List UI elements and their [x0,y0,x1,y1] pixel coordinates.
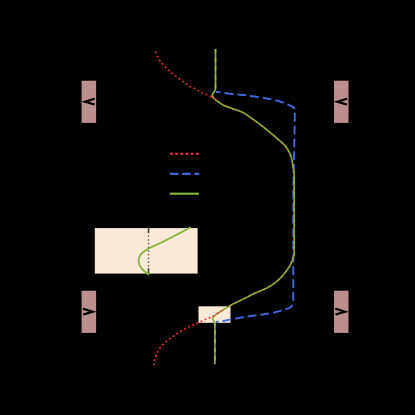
red dotted branch: lower-left tail [154,311,222,365]
inset dotted asymptote [148,228,150,274]
legend blue dashed [170,173,199,175]
zoom-region box [199,306,231,323]
button next-left [82,291,97,333]
legend green solid [170,193,199,195]
blue dashed hysteresis loop [216,92,295,322]
button prev-right [334,81,349,123]
green bright dashes overlay (top asymptote) [215,49,217,90]
legend red dotted [170,153,199,155]
inset box [95,228,198,274]
button prev-left [82,81,97,123]
gray asymptote under green (top) [215,49,217,90]
inset asymptote end caps [148,228,150,232]
gray asymptote under green (bottom) [214,324,216,365]
green trajectory [212,89,294,326]
green bright dashes overlay (bottom asymptote) [214,324,216,365]
red dotted branch: upper-left tail [156,52,216,100]
inset curve [139,227,191,275]
red dotted branch: arc overlay on green [212,97,295,314]
button next-right [334,291,349,333]
